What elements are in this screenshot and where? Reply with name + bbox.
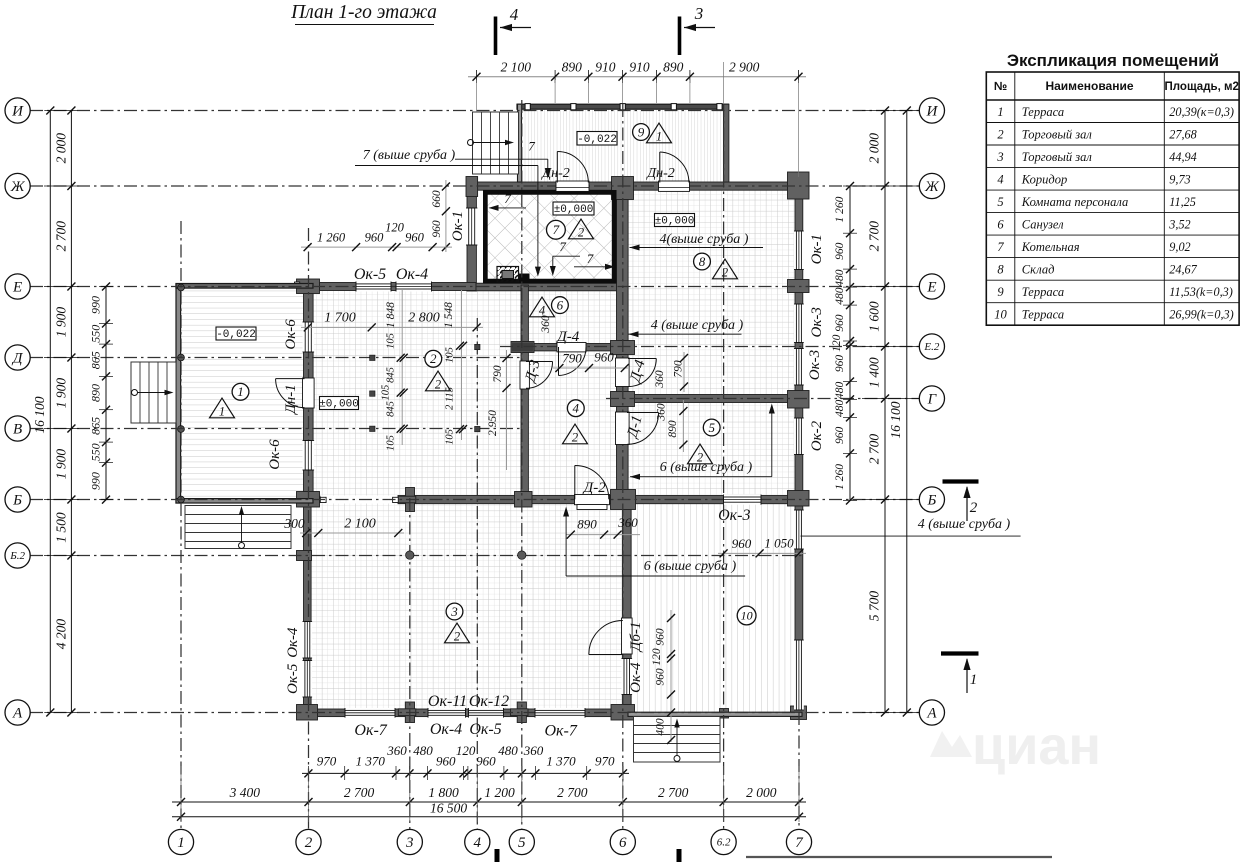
axis circle 6.2 bottom xyxy=(711,829,736,854)
svg-text:360: 360 xyxy=(656,403,668,422)
axis line column 6.2 xyxy=(723,104,725,830)
svg-text:6 (выше сруба ): 6 (выше сруба ) xyxy=(644,559,737,574)
svg-text:7 (выше сруба ): 7 (выше сруба ) xyxy=(363,148,456,163)
section mark bottom right stub xyxy=(677,849,682,862)
axis line row Ж xyxy=(30,185,919,187)
svg-text:4: 4 xyxy=(510,5,519,24)
terrace 9 top log wall xyxy=(517,104,729,109)
svg-text:Терраса: Терраса xyxy=(1022,105,1064,119)
axis circle Е.2 right xyxy=(919,334,944,359)
svg-text:Ок-3: Ок-3 xyxy=(809,307,825,337)
svg-text:3: 3 xyxy=(996,150,1003,164)
bottom window chain xyxy=(302,772,629,774)
svg-text:1: 1 xyxy=(997,105,1003,119)
svg-text:105: 105 xyxy=(381,385,392,401)
door leaf+arc Дн-2 right xyxy=(660,152,689,183)
svg-text:20,39(к=0,3): 20,39(к=0,3) xyxy=(1169,105,1234,119)
svg-text:890: 890 xyxy=(89,384,103,402)
svg-text:1 260: 1 260 xyxy=(834,464,846,490)
bottom total chain 16 500 xyxy=(172,816,806,818)
svg-text:2: 2 xyxy=(305,835,313,851)
window Ок-4 room3 left wall xyxy=(303,661,313,698)
svg-text:Дн-1: Дн-1 xyxy=(283,384,299,415)
svg-text:6.2: 6.2 xyxy=(717,837,731,849)
room 9 marker xyxy=(633,124,650,141)
room2 post dim chain A (x=402) xyxy=(401,290,403,445)
floor room 7 crosshatch xyxy=(488,195,612,280)
svg-text:циан: циан xyxy=(972,716,1101,776)
window Ок-1 axis4 wall xyxy=(466,208,477,245)
svg-text:Ок-5: Ок-5 xyxy=(285,663,301,694)
door opening Д-4 axis6 wall xyxy=(616,358,630,387)
axis circle А right xyxy=(919,700,944,725)
svg-text:А: А xyxy=(926,706,937,722)
axis line column 4 xyxy=(476,318,478,830)
wall axis 6 (rooms 7,6,4 / 8,5) xyxy=(617,190,629,500)
svg-text:960: 960 xyxy=(594,350,614,365)
svg-text:9: 9 xyxy=(638,124,645,139)
svg-text:Дн-2: Дн-2 xyxy=(540,166,570,181)
window Ок-4 terrace10 left wall xyxy=(622,659,633,695)
svg-text:Дн-2: Дн-2 xyxy=(645,166,675,181)
stair bottom right (terrace 10) xyxy=(634,717,721,763)
svg-text:±0,000: ±0,000 xyxy=(655,216,695,228)
svg-text:1 848: 1 848 xyxy=(385,302,397,328)
svg-text:2 700: 2 700 xyxy=(867,221,882,252)
axis circle 6 bottom xyxy=(610,829,635,854)
svg-text:План 1-го этажа: План 1-го этажа xyxy=(290,2,437,23)
svg-text:2 000: 2 000 xyxy=(867,133,882,164)
level -0,022 terrace1 xyxy=(216,327,256,340)
svg-text:910: 910 xyxy=(629,60,650,75)
axis circle Б right xyxy=(919,487,944,512)
axis circle Ж left xyxy=(5,173,30,198)
svg-text:890: 890 xyxy=(562,60,583,75)
door leaf+arc Д-4 (WC) xyxy=(559,347,587,376)
axis line column 2 xyxy=(308,228,310,830)
log end notch right of axis2 post xyxy=(320,497,326,502)
svg-text:790: 790 xyxy=(673,360,685,378)
terrace 1 corner post circles xyxy=(178,284,185,291)
svg-text:7: 7 xyxy=(997,240,1004,254)
door leaf+arc Д-3 xyxy=(526,362,553,389)
svg-text:890: 890 xyxy=(667,420,679,438)
svg-text:4 (выше сруба ): 4 (выше сруба ) xyxy=(918,517,1011,532)
svg-text:6: 6 xyxy=(557,298,564,313)
svg-text:3: 3 xyxy=(694,4,704,23)
axis circle И left xyxy=(5,98,30,123)
stair left entrance xyxy=(131,362,176,423)
axis line column 7 xyxy=(798,712,800,830)
svg-text:360: 360 xyxy=(617,515,638,530)
terrace 10 right wall xyxy=(795,503,803,717)
room3 posts on Б.2 xyxy=(406,551,414,559)
door opening Д-4 row Е.2 xyxy=(557,343,586,352)
log end notch left of axis3 post xyxy=(393,497,399,502)
svg-text:4: 4 xyxy=(474,835,482,851)
svg-text:4: 4 xyxy=(539,304,545,318)
axis line column 6 xyxy=(622,104,624,830)
window Ок-4 row А xyxy=(428,708,466,718)
svg-text:360: 360 xyxy=(540,315,552,334)
left inner chain 990/550/865/890 xyxy=(105,287,107,500)
svg-text:2: 2 xyxy=(697,451,703,465)
svg-text:990: 990 xyxy=(89,296,103,314)
room 1 marker xyxy=(232,383,249,400)
svg-text:2: 2 xyxy=(430,351,437,366)
svg-text:Торговый зал: Торговый зал xyxy=(1022,150,1093,164)
axis line row В xyxy=(30,428,521,430)
window Ок-2 right wall xyxy=(794,418,804,455)
svg-text:Г: Г xyxy=(927,392,938,408)
terrace 1 right wall (axis 2) xyxy=(304,283,314,503)
svg-text:8: 8 xyxy=(997,262,1004,276)
svg-text:24,67: 24,67 xyxy=(1169,262,1197,276)
svg-text:Ок-7: Ок-7 xyxy=(545,723,578,740)
room2 window chain 1260/960/120/960 xyxy=(301,246,452,248)
svg-text:1 500: 1 500 xyxy=(54,512,69,543)
svg-text:7: 7 xyxy=(553,222,560,237)
section mark 3 top xyxy=(678,17,682,56)
svg-text:300: 300 xyxy=(283,516,305,531)
svg-text:2 700: 2 700 xyxy=(658,785,689,800)
svg-text:660: 660 xyxy=(431,190,443,208)
door leaf+arc Дб-1 xyxy=(589,621,623,655)
svg-text:1: 1 xyxy=(237,384,244,399)
door leaf+arc Д-4 (axis6) xyxy=(628,359,656,387)
level -0,022 terrace9 xyxy=(577,132,617,146)
axis circle 4 bottom xyxy=(465,829,490,854)
svg-text:Ок-4: Ок-4 xyxy=(285,627,301,658)
door opening Дн-2 right (row Ж) xyxy=(659,181,690,191)
floor rooms 6 and 4 grid xyxy=(529,285,617,496)
svg-text:5: 5 xyxy=(518,835,526,851)
svg-text:2 950: 2 950 xyxy=(487,410,499,436)
svg-text:Б: Б xyxy=(12,493,22,509)
svg-text:2: 2 xyxy=(454,630,460,644)
svg-text:990: 990 xyxy=(89,472,103,490)
svg-text:16 100: 16 100 xyxy=(888,401,903,438)
right window chain xyxy=(849,186,851,501)
svg-text:Ок-4: Ок-4 xyxy=(396,266,428,283)
svg-text:Терраса: Терраса xyxy=(1022,307,1064,321)
svg-text:В: В xyxy=(13,422,22,438)
svg-text:11,25: 11,25 xyxy=(1169,195,1196,209)
svg-text:1 800: 1 800 xyxy=(428,785,459,800)
svg-text:360: 360 xyxy=(523,743,544,758)
svg-text:Ок-3: Ок-3 xyxy=(718,507,750,524)
stair terrace 9 xyxy=(473,112,519,174)
terrace10 left wall chain 960/120/960/400 xyxy=(670,610,672,742)
svg-text:480: 480 xyxy=(413,743,433,758)
svg-text:Склад: Склад xyxy=(1022,262,1055,276)
svg-text:2: 2 xyxy=(435,378,441,392)
svg-text:4(выше сруба ): 4(выше сруба ) xyxy=(660,232,749,247)
wall row Е under boiler room xyxy=(476,283,628,291)
stair bottom (axis Б.2) xyxy=(185,506,291,549)
svg-text:2: 2 xyxy=(722,266,728,280)
bottom right frame line xyxy=(746,856,1052,858)
svg-text:970: 970 xyxy=(595,754,615,769)
room3 dim 300/2100 xyxy=(300,532,404,534)
svg-text:2 000: 2 000 xyxy=(54,133,69,164)
axis circle Б left xyxy=(5,487,30,512)
svg-text:480: 480 xyxy=(498,743,518,758)
axis line column 3 xyxy=(409,498,411,830)
svg-text:Б.2: Б.2 xyxy=(9,550,25,562)
svg-text:Ок-5: Ок-5 xyxy=(354,266,386,283)
floor room 2 grid xyxy=(313,291,521,496)
top extension lines xyxy=(554,80,556,103)
svg-text:5: 5 xyxy=(997,195,1003,209)
svg-text:7: 7 xyxy=(587,251,594,266)
terrace10 dim 960/1050 xyxy=(718,552,806,554)
axis circle И right xyxy=(919,98,944,123)
svg-text:2: 2 xyxy=(578,226,584,240)
svg-text:550: 550 xyxy=(89,325,103,343)
svg-text:4: 4 xyxy=(573,401,580,416)
svg-text:И: И xyxy=(11,104,24,120)
svg-text:6: 6 xyxy=(997,217,1004,231)
axis circle В left xyxy=(5,416,30,441)
room 3 left wall (axis 2) xyxy=(304,499,312,713)
boiler room 7 black walls xyxy=(483,190,617,284)
svg-text:865: 865 xyxy=(89,351,103,369)
svg-text:-0,022: -0,022 xyxy=(577,134,617,146)
window Ок-3 right wall lower xyxy=(794,349,804,386)
svg-text:845: 845 xyxy=(386,401,397,417)
window Ок-6 terrace1 top xyxy=(303,322,315,352)
window Ок-6 terrace1 bottom xyxy=(303,441,315,471)
svg-text:960: 960 xyxy=(655,628,667,646)
terrace 10 bottom edge xyxy=(628,712,802,716)
svg-text:120: 120 xyxy=(651,648,663,666)
svg-text:2 100: 2 100 xyxy=(501,60,532,75)
svg-text:1 260: 1 260 xyxy=(834,196,846,222)
door opening Дб-1 terrace10 left wall xyxy=(622,618,633,654)
room 2 marker xyxy=(425,350,442,367)
svg-text:Ок-1: Ок-1 xyxy=(809,234,825,264)
svg-text:1 548: 1 548 xyxy=(443,302,455,328)
axis circle А left xyxy=(5,700,30,725)
wall top-left vertical (axis 4, rows Ж-Е) xyxy=(467,182,476,291)
floor terrace 1 (horizontal decking) xyxy=(181,288,304,499)
axis circle 1 bottom xyxy=(168,829,193,854)
svg-text:105: 105 xyxy=(445,347,456,363)
svg-text:±0,000: ±0,000 xyxy=(554,204,594,216)
wall row Е left part with window openings xyxy=(304,283,477,291)
left total chain 16 100 xyxy=(49,111,51,713)
svg-text:120: 120 xyxy=(831,334,843,352)
svg-text:±0,000: ±0,000 xyxy=(319,399,359,411)
svg-text:7: 7 xyxy=(504,191,511,206)
svg-text:1: 1 xyxy=(970,672,978,688)
svg-text:790: 790 xyxy=(492,365,504,383)
svg-text:16 100: 16 100 xyxy=(32,396,47,433)
svg-text:И: И xyxy=(925,104,938,120)
wall row А xyxy=(304,709,629,717)
svg-text:105: 105 xyxy=(445,429,456,445)
svg-text:2 100: 2 100 xyxy=(344,517,376,532)
svg-text:2 700: 2 700 xyxy=(344,785,375,800)
room 6 marker xyxy=(552,297,569,314)
svg-text:5: 5 xyxy=(708,420,715,435)
window Ок-5 row Е xyxy=(356,282,391,292)
bottom extension lines xyxy=(180,766,182,822)
room 4 marker xyxy=(567,400,584,417)
svg-text:26,99(k=0,3): 26,99(k=0,3) xyxy=(1169,307,1233,321)
room 5 marker xyxy=(703,419,720,436)
room2 door dim chain C (x=506.5) xyxy=(506,350,508,470)
top dimension chain xyxy=(468,76,806,78)
svg-text:2: 2 xyxy=(970,500,978,516)
terrace 10 left wall (axis 6) xyxy=(623,499,632,717)
svg-text:480: 480 xyxy=(834,287,846,305)
svg-text:3: 3 xyxy=(450,604,458,619)
svg-text:Ок-4: Ок-4 xyxy=(628,662,644,693)
svg-text:1 900: 1 900 xyxy=(54,449,69,480)
svg-text:Д-2: Д-2 xyxy=(582,480,607,496)
svg-text:Д: Д xyxy=(11,351,24,367)
svg-text:44,94: 44,94 xyxy=(1169,150,1196,164)
svg-text:Наименование: Наименование xyxy=(1045,79,1133,93)
room2 post dim chain B (x=461.5) xyxy=(461,290,463,440)
svg-text:960: 960 xyxy=(834,242,846,260)
svg-text:27,68: 27,68 xyxy=(1169,127,1196,141)
svg-text:360: 360 xyxy=(386,743,407,758)
svg-text:1 400: 1 400 xyxy=(867,357,882,388)
svg-text:Коридор: Коридор xyxy=(1021,172,1067,186)
svg-text:105: 105 xyxy=(386,333,397,349)
door leaf+arc Д-2 xyxy=(575,465,609,499)
axis line row А xyxy=(30,712,919,714)
svg-text:960: 960 xyxy=(834,427,846,445)
door opening Дн-1 terrace 1 xyxy=(303,378,315,408)
axis line row Е.2 xyxy=(500,346,919,348)
svg-text:910: 910 xyxy=(595,60,616,75)
svg-text:1 370: 1 370 xyxy=(546,754,576,769)
svg-text:10: 10 xyxy=(741,609,753,623)
terrace 9 right wall xyxy=(724,104,729,182)
svg-text:1 600: 1 600 xyxy=(867,301,882,332)
svg-text:-0,022: -0,022 xyxy=(216,329,256,341)
svg-text:3: 3 xyxy=(405,835,414,851)
axis line column 5 xyxy=(521,100,523,830)
svg-text:6: 6 xyxy=(619,835,627,851)
svg-text:960: 960 xyxy=(405,231,425,245)
svg-text:3 400: 3 400 xyxy=(229,785,261,800)
svg-text:480: 480 xyxy=(834,269,846,287)
wall axis 5 (rooms 2/6/4) xyxy=(521,285,528,500)
wall row Б stub at axis 2 xyxy=(298,496,321,502)
svg-text:Д-4: Д-4 xyxy=(555,329,580,345)
svg-text:Ок-6: Ок-6 xyxy=(267,439,283,470)
svg-text:1 900: 1 900 xyxy=(54,307,69,338)
svg-text:4: 4 xyxy=(997,172,1003,186)
svg-text:Дб-1: Дб-1 xyxy=(628,622,644,654)
svg-text:865: 865 xyxy=(89,417,103,435)
svg-text:2 700: 2 700 xyxy=(867,434,882,465)
svg-text:1 050: 1 050 xyxy=(764,536,794,551)
section mark bottom left stub xyxy=(495,849,500,862)
svg-text:А: А xyxy=(12,706,23,722)
axis line row Б.2 xyxy=(30,555,805,557)
axis line row Е xyxy=(30,286,919,288)
svg-text:1 370: 1 370 xyxy=(356,754,386,769)
window Ок-3 right wall upper xyxy=(794,304,804,343)
window Ок-7 row А 2 xyxy=(535,708,585,718)
svg-text:Е: Е xyxy=(926,280,936,296)
svg-text:Площадь, м2: Площадь, м2 xyxy=(1165,81,1239,93)
svg-text:960: 960 xyxy=(834,355,846,373)
svg-text:2: 2 xyxy=(572,431,578,445)
section mark 1 right xyxy=(941,651,979,655)
right rows chain xyxy=(884,111,886,713)
door opening Д-2 row Б xyxy=(575,495,610,505)
svg-text:480: 480 xyxy=(834,400,846,418)
wall row Г (rooms 8/5) xyxy=(612,395,802,403)
svg-text:105: 105 xyxy=(386,435,397,451)
axis circle 3 bottom xyxy=(397,829,422,854)
door opening Дн-2 left (row Ж) xyxy=(556,181,589,191)
svg-text:480: 480 xyxy=(834,382,846,400)
svg-text:Ок-7: Ок-7 xyxy=(354,722,387,739)
room3 dim 890/360 (door Д-2) xyxy=(566,534,640,536)
level ±0,000 room8 xyxy=(655,214,695,227)
svg-text:№: № xyxy=(994,79,1007,93)
svg-text:Ок-3: Ок-3 xyxy=(807,350,823,380)
axis circle 2 bottom xyxy=(296,829,321,854)
svg-text:400: 400 xyxy=(655,718,667,736)
terrace 1 thin walls xyxy=(176,284,181,503)
chimney flue symbol xyxy=(497,267,519,283)
window Ок-5 room3 left wall xyxy=(303,622,313,659)
right total chain 16 100 xyxy=(906,111,908,713)
svg-text:960: 960 xyxy=(655,668,667,686)
svg-text:960: 960 xyxy=(436,754,456,769)
terrace 9 left edge xyxy=(518,104,522,182)
room2 interior posts xyxy=(370,355,375,360)
axis circle 5 bottom xyxy=(509,829,534,854)
section mark 4 top xyxy=(494,17,498,56)
svg-text:Терраса: Терраса xyxy=(1022,285,1064,299)
svg-text:550: 550 xyxy=(89,443,103,461)
window Ок-4 row Е xyxy=(396,282,432,292)
svg-text:960: 960 xyxy=(732,536,752,551)
door leaf+arc Дн-2 left xyxy=(557,152,588,183)
svg-text:Ок-2: Ок-2 xyxy=(809,420,825,451)
axis circle Ж right xyxy=(919,173,944,198)
room 3 marker xyxy=(446,603,463,620)
svg-text:2 000: 2 000 xyxy=(746,785,777,800)
threshold Д-2 xyxy=(577,505,607,510)
svg-text:890: 890 xyxy=(577,517,597,532)
axis line row Г xyxy=(606,398,919,400)
axis line row И xyxy=(30,110,919,112)
svg-text:10: 10 xyxy=(994,307,1007,321)
door opening Д-1 axis6 wall xyxy=(616,412,630,445)
svg-text:Ок-4: Ок-4 xyxy=(430,721,462,738)
svg-text:1 260: 1 260 xyxy=(317,231,346,245)
room6 door dims 790/960 xyxy=(553,367,628,369)
window Ок-3 row Б terrace10 xyxy=(724,495,762,505)
svg-text:1: 1 xyxy=(219,405,225,419)
svg-text:Ок-5: Ок-5 xyxy=(469,721,501,738)
section mark 2 right xyxy=(943,479,979,483)
svg-text:120: 120 xyxy=(385,221,405,235)
svg-text:Санузел: Санузел xyxy=(1022,217,1064,231)
svg-text:1 200: 1 200 xyxy=(484,785,515,800)
